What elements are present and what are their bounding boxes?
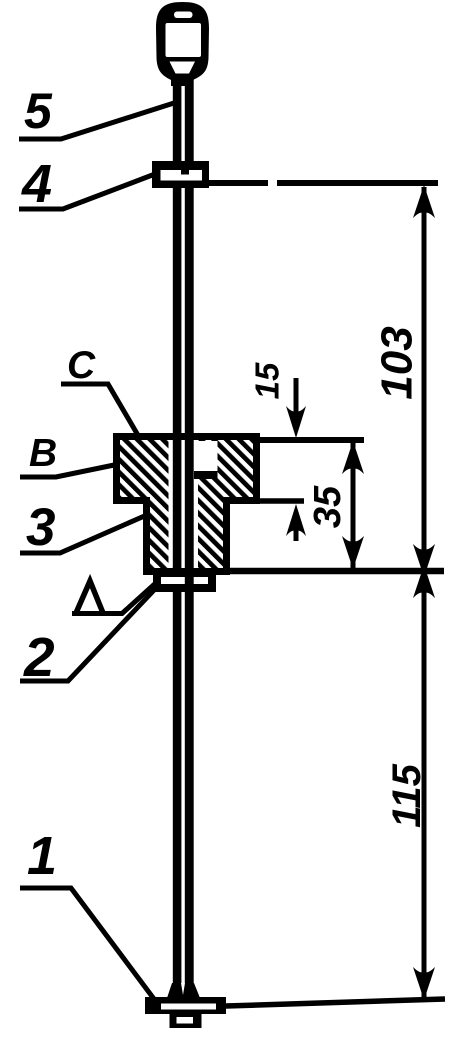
dimension line 103/115 (x=424): [422, 187, 427, 999]
extension line top (y=183): [207, 180, 438, 186]
svg-text:5: 5: [24, 83, 53, 139]
arrow up at top of 115: [413, 565, 435, 598]
dim 15: upper arrow stem: [294, 378, 299, 430]
svg-text:115: 115: [385, 763, 429, 828]
knob window: [166, 23, 202, 57]
base nub: [170, 1014, 202, 1028]
rod flare at bottom: [167, 983, 200, 998]
white clearance around rod inside block: [169, 441, 199, 567]
svg-text:103: 103: [373, 326, 422, 399]
svg-text:C: C: [67, 344, 96, 387]
leader line of label 4: [19, 174, 155, 209]
leader line of label 1: [20, 888, 157, 1003]
guide block body (parts B/C/3) hatched: [113, 433, 260, 575]
dim 15: arrow down to top face: [286, 406, 306, 438]
black bar under notch: [194, 471, 218, 479]
collar slot (white): [161, 170, 203, 181]
svg-text:4: 4: [21, 154, 52, 214]
dim 15: short line at y=501: [258, 498, 304, 504]
rod (part 5 stem) left line: [173, 72, 182, 986]
leader line of label B: [20, 464, 119, 477]
washer slot left white over rod: [161, 577, 183, 584]
dim 35: dimension line: [351, 441, 356, 569]
dim 15: arrow up from below: [286, 504, 306, 536]
collar slot black speck: [181, 170, 189, 175]
leader line of label C: [61, 384, 139, 437]
notch white recess: [194, 441, 218, 471]
extension line middle (y=571): [228, 568, 444, 575]
base nub slot: [177, 1017, 194, 1024]
leader line of label 2: [20, 571, 172, 681]
svg-text:3: 3: [26, 498, 55, 557]
base plate slot: [161, 1004, 216, 1010]
dim 35: top extension line y=440: [256, 437, 364, 443]
arrow down at bottom of 115: [413, 967, 435, 1000]
label D (triangle glyph): [76, 581, 103, 613]
arrow up at top of 103: [413, 185, 435, 218]
arrow down at bottom of 103: [413, 544, 435, 577]
rod right line: [185, 72, 194, 986]
flare slit: [181, 983, 185, 995]
leader line of label D: [72, 581, 158, 614]
knob head (part 5): [156, 2, 209, 86]
svg-text:15: 15: [249, 362, 286, 399]
dim 15: lower stem: [294, 524, 299, 541]
knob top slit: [174, 12, 193, 19]
svg-text:B: B: [29, 432, 57, 475]
base plate (part 1): [145, 997, 226, 1014]
extension line bottom (y=1000): [226, 999, 445, 1006]
washer (part 2): [153, 568, 216, 592]
collar (part 4) body: [152, 161, 209, 188]
leader line of label 5: [19, 103, 174, 139]
leader line of label 3: [20, 514, 149, 553]
washer slot: [161, 577, 208, 584]
svg-text:35: 35: [307, 485, 349, 528]
guide block outline: [117, 437, 257, 572]
dim 35: arrow down: [342, 536, 364, 569]
svg-text:1: 1: [27, 826, 57, 886]
dim 35: arrow up: [342, 441, 364, 474]
knob neck trapezoid: [170, 62, 196, 74]
